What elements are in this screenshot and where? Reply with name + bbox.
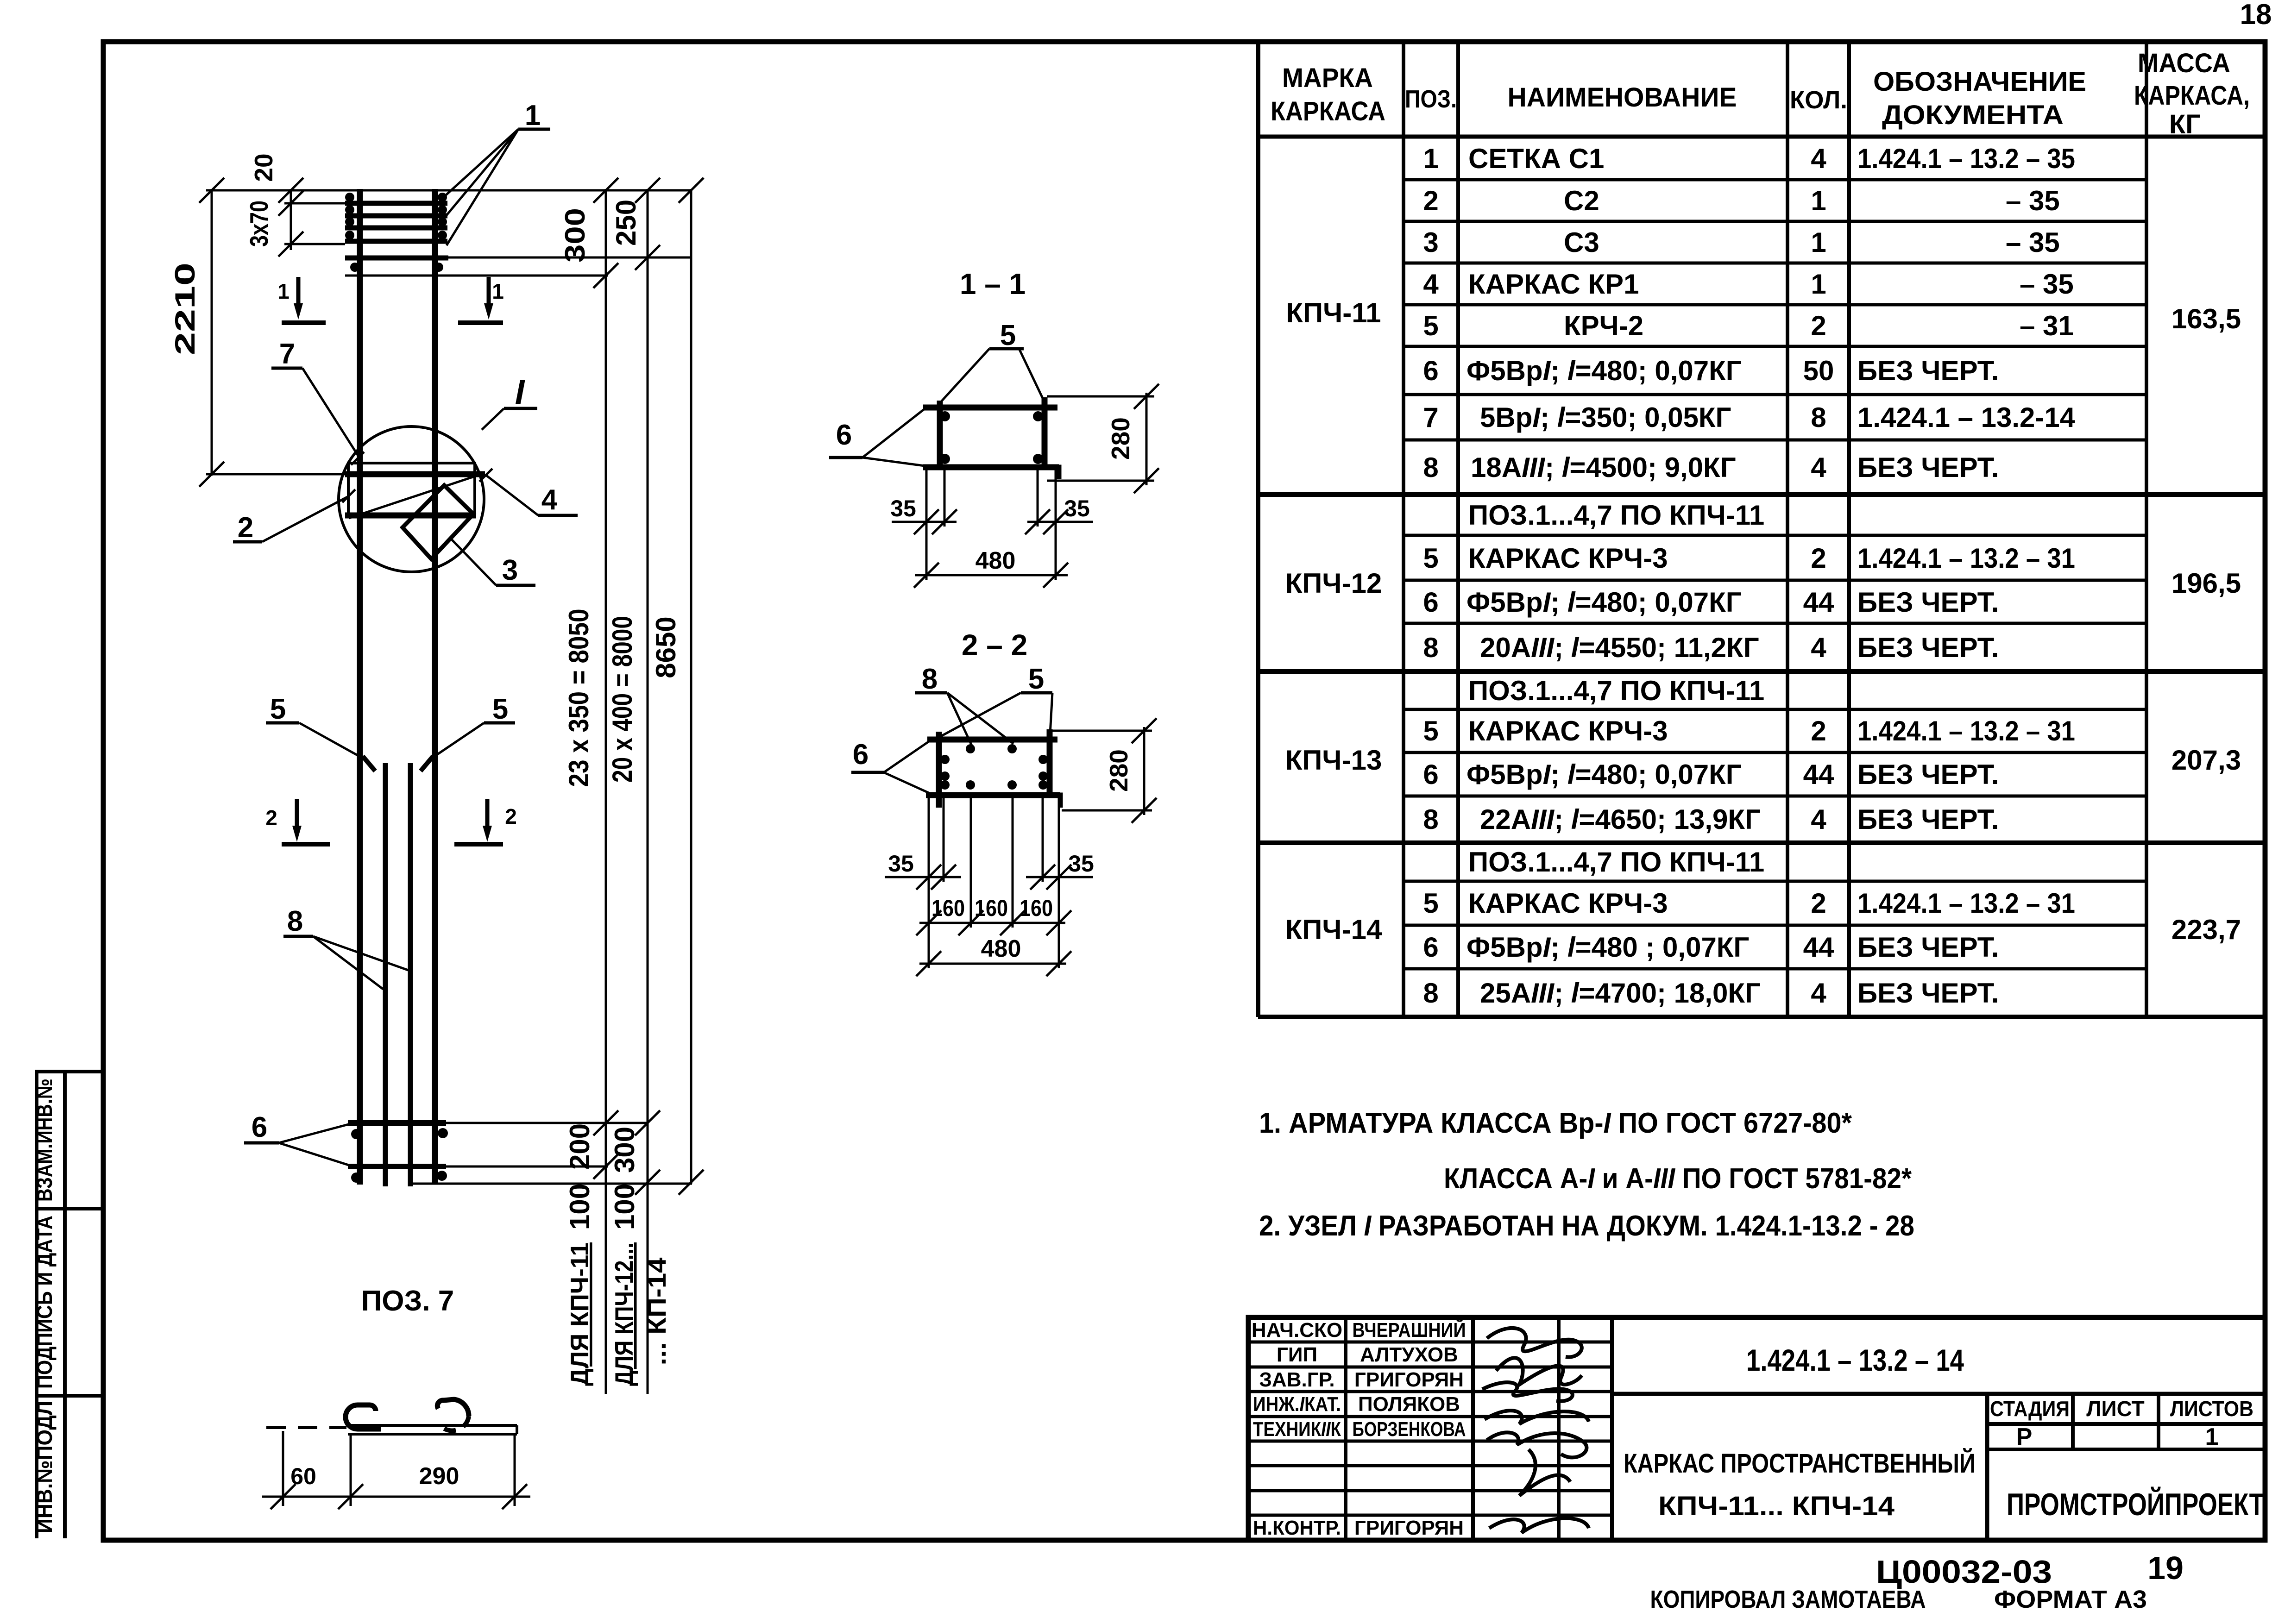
svg-text:Н.КОНТР.: Н.КОНТР. — [1253, 1517, 1341, 1539]
extension wire4 — [284, 243, 345, 245]
mesh C1 cross wire 3 — [345, 226, 447, 231]
svg-text:20АIII; l=4550; 11,2КГ: 20АIII; l=4550; 11,2КГ — [1480, 632, 1759, 663]
svg-text:НАИМЕНОВАНИЕ: НАИМЕНОВАНИЕ — [1508, 82, 1737, 113]
dim line 20x400 (x=1398) — [647, 189, 649, 1394]
svg-text:1.424.1 – 13.2-14: 1.424.1 – 13.2-14 — [1857, 402, 2076, 433]
2-2 bar dots — [966, 744, 975, 753]
svg-text:БЕЗ ЧЕРТ.: БЕЗ ЧЕРТ. — [1857, 978, 1999, 1009]
dim line 23x350 (x=1308) — [605, 189, 607, 1394]
top extension line — [206, 189, 691, 192]
svg-text:1.424.1 – 13.2 – 14: 1.424.1 – 13.2 – 14 — [1746, 1343, 1964, 1377]
svg-text:207,3: 207,3 — [2171, 745, 2241, 776]
dim 2210 line — [211, 189, 213, 476]
svg-text:20 x 400 = 8000: 20 x 400 = 8000 — [607, 616, 638, 783]
svg-text:КАРКАСА,: КАРКАСА, — [2134, 81, 2250, 111]
node inner diagonal — [349, 473, 484, 518]
1-1 stirrup corner hook — [1048, 467, 1059, 479]
svg-text:– 35: – 35 — [2006, 185, 2060, 216]
svg-text:8: 8 — [1811, 402, 1826, 433]
svg-text:КПЧ-14: КПЧ-14 — [1285, 914, 1382, 945]
svg-text:2: 2 — [1811, 310, 1826, 341]
svg-text:КАРКАС КРЧ-3: КАРКАС КРЧ-3 — [1468, 543, 1668, 574]
svg-text:2 – 2: 2 – 2 — [962, 628, 1027, 662]
svg-text:5: 5 — [1423, 310, 1438, 341]
svg-text:ЗАВ.ГР.: ЗАВ.ГР. — [1259, 1368, 1334, 1391]
svg-text:1: 1 — [277, 279, 290, 303]
svg-text:СТАДИЯ: СТАДИЯ — [1990, 1397, 2070, 1421]
svg-text:– 35: – 35 — [2020, 269, 2074, 300]
node rect top edge (mesh C2) — [347, 462, 476, 464]
svg-text:БЕЗ ЧЕРТ.: БЕЗ ЧЕРТ. — [1857, 452, 1999, 483]
2-2 stirrup right leg — [1047, 729, 1053, 795]
svg-text:2. УЗЕЛ I РАЗРАБОТАН НА ДОКУМ.: 2. УЗЕЛ I РАЗРАБОТАН НА ДОКУМ. 1.424.1-1… — [1259, 1210, 1914, 1242]
bar 5 splice mark right — [421, 756, 433, 771]
svg-text:С2: С2 — [1564, 185, 1599, 216]
svg-text:КПЧ-12: КПЧ-12 — [1285, 568, 1382, 599]
svg-text:23 x 350 = 8050: 23 x 350 = 8050 — [563, 609, 594, 787]
svg-text:5: 5 — [1423, 888, 1438, 919]
svg-text:18АIII; l=4500; 9,0КГ: 18АIII; l=4500; 9,0КГ — [1471, 452, 1736, 483]
svg-text:200: 200 — [564, 1123, 595, 1170]
svg-text:БЕЗ ЧЕРТ.: БЕЗ ЧЕРТ. — [1857, 759, 1999, 790]
svg-text:ВЧЕРАШНИЙ: ВЧЕРАШНИЙ — [1353, 1318, 1466, 1342]
mesh C1 cross wire 2 — [345, 213, 447, 219]
svg-text:5: 5 — [270, 693, 286, 725]
svg-text:Ц00032-03: Ц00032-03 — [1876, 1554, 2052, 1590]
svg-text:Ф5ВрI; l=480 ; 0,07КГ: Ф5ВрI; l=480 ; 0,07КГ — [1466, 932, 1749, 963]
svg-text:5: 5 — [1423, 543, 1438, 574]
svg-text:2: 2 — [238, 512, 253, 544]
svg-text:44: 44 — [1803, 587, 1834, 618]
svg-text:ИНЖ.IКАТ.: ИНЖ.IКАТ. — [1253, 1393, 1341, 1416]
node thick bottom bar — [345, 513, 476, 519]
svg-text:ОБОЗНАЧЕНИЕ: ОБОЗНАЧЕНИЕ — [1873, 67, 2086, 97]
svg-text:250: 250 — [611, 200, 642, 246]
svg-text:8: 8 — [1423, 452, 1438, 483]
hook detail dashed continuation — [266, 1426, 346, 1429]
svg-text:196,5: 196,5 — [2171, 568, 2241, 599]
svg-text:5ВрI; l=350; 0,05КГ: 5ВрI; l=350; 0,05КГ — [1480, 402, 1731, 433]
svg-text:2210: 2210 — [170, 263, 201, 355]
1-1 dim 480 — [915, 574, 1068, 577]
svg-text:КПЧ-11... КПЧ-14: КПЧ-11... КПЧ-14 — [1658, 1491, 1894, 1521]
1-1 stirrup top bar — [923, 405, 1057, 411]
svg-text:МАССА: МАССА — [2138, 48, 2230, 78]
extension mesh bottom level — [345, 275, 608, 277]
svg-text:4: 4 — [1811, 452, 1826, 483]
svg-text:19: 19 — [2147, 1550, 2184, 1586]
svg-text:НАЧ.СКО: НАЧ.СКО — [1252, 1319, 1342, 1342]
svg-text:1 – 1: 1 – 1 — [960, 267, 1026, 301]
svg-text:1.424.1 – 13.2 – 35: 1.424.1 – 13.2 – 35 — [1857, 143, 2075, 174]
svg-text:ПОЗ.: ПОЗ. — [1405, 85, 1457, 113]
2-2 dim 280 — [1052, 730, 1152, 732]
svg-text:8: 8 — [1423, 978, 1438, 1009]
hook detail extension lines — [282, 1431, 284, 1506]
svg-text:1.424.1 – 13.2 – 31: 1.424.1 – 13.2 – 31 — [1857, 715, 2075, 746]
svg-text:280: 280 — [1106, 417, 1135, 460]
svg-text:25АIII; l=4700; 18,0КГ: 25АIII; l=4700; 18,0КГ — [1480, 978, 1761, 1009]
lower mesh dots below bar5 — [350, 263, 359, 272]
extension bar5 level — [448, 257, 691, 259]
svg-text:БЕЗ ЧЕРТ.: БЕЗ ЧЕРТ. — [1857, 804, 1999, 835]
svg-text:ФОРМАТ А3: ФОРМАТ А3 — [1994, 1586, 2147, 1613]
mesh C1 cross wire 4 — [345, 239, 447, 244]
1-1 dim 280 — [1047, 395, 1154, 398]
svg-text:20: 20 — [249, 153, 278, 182]
svg-text:6: 6 — [836, 419, 852, 451]
svg-text:163,5: 163,5 — [2171, 303, 2241, 334]
svg-text:1. АРМАТУРА КЛАССА Вр-I ПО ГО: 1. АРМАТУРА КЛАССА Вр-I ПО ГОСТ 6727-80* — [1259, 1107, 1852, 1139]
dim line 8650 (x=1492) — [690, 189, 692, 1184]
2-2 dims 160 — [919, 922, 1065, 924]
2-2 extension verticals — [928, 798, 930, 968]
svg-text:КАРКАС КРЧ-3: КАРКАС КРЧ-3 — [1468, 888, 1668, 919]
svg-text:5: 5 — [1028, 663, 1044, 695]
longitudinal bar 8 left — [383, 763, 388, 1186]
svg-text:6: 6 — [1423, 759, 1438, 790]
cage leg left (bar 5/8 line) — [357, 189, 363, 1185]
svg-text:8: 8 — [1423, 632, 1438, 663]
svg-text:1: 1 — [1811, 227, 1826, 258]
svg-text:35: 35 — [890, 495, 916, 521]
svg-text:6: 6 — [1423, 355, 1438, 386]
svg-text:ПРОМСТРОЙПРОЕКТ: ПРОМСТРОЙПРОЕКТ — [2007, 1486, 2264, 1522]
2-2 dim 480 — [919, 963, 1066, 965]
1-1 corner bar dots — [940, 411, 950, 421]
bottom stirrup dots — [351, 1129, 361, 1139]
svg-text:КПЧ-11: КПЧ-11 — [1286, 297, 1381, 328]
svg-text:290: 290 — [419, 1463, 459, 1490]
svg-text:ГРИГОРЯН: ГРИГОРЯН — [1354, 1517, 1464, 1539]
svg-text:7: 7 — [1423, 402, 1438, 433]
svg-text:4: 4 — [1811, 978, 1826, 1009]
svg-text:Р: Р — [2016, 1423, 2033, 1450]
2-2 stirrup left leg — [936, 732, 942, 808]
bottom stirrup bar A — [348, 1120, 446, 1126]
svg-text:КПЧ-13: КПЧ-13 — [1285, 745, 1382, 776]
svg-text:ПОЗ.1...4,7 ПО КПЧ-11: ПОЗ.1...4,7 ПО КПЧ-11 — [1468, 846, 1764, 878]
svg-text:КОПИРОВАЛ ЗАМОТАЕВА: КОПИРОВАЛ ЗАМОТАЕВА — [1650, 1586, 1926, 1613]
svg-text:КАРКАС КР1: КАРКАС КР1 — [1468, 269, 1639, 300]
svg-text:44: 44 — [1803, 932, 1834, 963]
1-1 dim 35 right — [1027, 521, 1093, 523]
svg-text:ДОКУМЕНТА: ДОКУМЕНТА — [1882, 100, 2064, 130]
svg-text:5: 5 — [1423, 715, 1438, 746]
1-1 stirrup right leg — [1042, 397, 1048, 467]
svg-text:280: 280 — [1104, 749, 1133, 792]
svg-text:5: 5 — [1000, 320, 1016, 351]
svg-text:Ф5ВрI; l=480; 0,07КГ: Ф5ВрI; l=480; 0,07КГ — [1466, 759, 1742, 790]
mesh wire end dots left — [345, 193, 354, 202]
svg-text:160: 160 — [1020, 895, 1053, 921]
svg-text:4: 4 — [1811, 143, 1826, 174]
svg-text:100: 100 — [564, 1184, 595, 1230]
mesh wire end dots right — [438, 193, 447, 202]
svg-text:2: 2 — [1811, 888, 1826, 919]
specification table grid — [1258, 42, 2265, 1017]
svg-text:100: 100 — [609, 1184, 640, 1230]
hook detail bar outline — [348, 1424, 517, 1427]
svg-text:2: 2 — [1811, 715, 1826, 746]
svg-text:160: 160 — [932, 895, 965, 921]
svg-text:БЕЗ ЧЕРТ.: БЕЗ ЧЕРТ. — [1857, 632, 1999, 663]
svg-text:50: 50 — [1803, 355, 1834, 386]
node I circle — [339, 426, 484, 572]
svg-text:КАРКАСА: КАРКАСА — [1271, 96, 1385, 126]
svg-text:БЕЗ ЧЕРТ.: БЕЗ ЧЕРТ. — [1857, 932, 1999, 963]
svg-text:1: 1 — [1811, 269, 1826, 300]
svg-text:6: 6 — [1423, 587, 1438, 618]
svg-text:ЛИСТ: ЛИСТ — [2086, 1397, 2145, 1421]
svg-text:ПОДПИСЬ И ДАТА: ПОДПИСЬ И ДАТА — [32, 1216, 57, 1389]
svg-text:1: 1 — [492, 279, 504, 303]
2-2 dim 35 left — [885, 876, 961, 878]
svg-text:44: 44 — [1803, 759, 1834, 790]
hook right (dashed 180 deg) — [437, 1399, 469, 1416]
2-2 stirrup bottom bar — [926, 792, 1060, 798]
svg-text:3: 3 — [1423, 227, 1438, 258]
svg-text:С3: С3 — [1564, 227, 1599, 258]
svg-text:ИНВ.№ПОДЛ: ИНВ.№ПОДЛ — [32, 1401, 57, 1533]
bar 5 splice mark left — [363, 756, 375, 771]
svg-text:4: 4 — [1811, 632, 1826, 663]
svg-text:35: 35 — [888, 851, 914, 877]
svg-text:ВЗАМ.ИНВ.№: ВЗАМ.ИНВ.№ — [32, 1078, 57, 1202]
svg-text:4: 4 — [1811, 804, 1826, 835]
svg-text:18: 18 — [2240, 0, 2272, 31]
svg-text:ЛИСТОВ: ЛИСТОВ — [2170, 1397, 2253, 1421]
dim 20 / 3x70 line — [290, 189, 292, 250]
svg-text:2: 2 — [1423, 185, 1438, 216]
node thick top bar — [345, 471, 485, 477]
svg-text:ПОЗ. 7: ПОЗ. 7 — [361, 1285, 454, 1317]
extension stirrup A — [446, 1122, 648, 1124]
svg-text:35: 35 — [1068, 851, 1094, 877]
svg-text:8650: 8650 — [650, 616, 681, 678]
svg-text:ГИП: ГИП — [1277, 1343, 1317, 1366]
2-2 dim 35 right — [1026, 876, 1093, 878]
svg-text:ПОЛЯКОВ: ПОЛЯКОВ — [1358, 1393, 1460, 1416]
svg-text:1: 1 — [525, 100, 541, 132]
longitudinal bar 8 right — [408, 763, 413, 1186]
svg-text:Ф5ВрI; l=480; 0,07КГ: Ф5ВрI; l=480; 0,07КГ — [1466, 355, 1742, 386]
svg-text:МАРКА: МАРКА — [1282, 63, 1373, 93]
svg-text:223,7: 223,7 — [2171, 914, 2241, 945]
svg-text:5: 5 — [492, 693, 508, 725]
svg-text:1: 1 — [2205, 1423, 2219, 1450]
svg-text:300: 300 — [609, 1127, 640, 1173]
svg-text:I: I — [515, 373, 525, 411]
svg-text:... КП-14: ... КП-14 — [642, 1257, 671, 1365]
svg-text:БЕЗ ЧЕРТ.: БЕЗ ЧЕРТ. — [1857, 355, 1999, 386]
2-2 stirrup top bar — [927, 737, 1057, 743]
node rect right edge — [473, 463, 476, 517]
1-1 dim 35 left — [892, 521, 957, 523]
svg-text:1.424.1 – 13.2 – 31: 1.424.1 – 13.2 – 31 — [1857, 888, 2075, 919]
extension at node bar level — [206, 473, 347, 476]
svg-text:КАРКАС ПРОСТРАНСТВЕННЫЙ: КАРКАС ПРОСТРАНСТВЕННЫЙ — [1624, 1448, 1976, 1479]
bottom stirrup bar B — [348, 1164, 446, 1169]
svg-text:АЛТУХОВ: АЛТУХОВ — [1360, 1343, 1458, 1366]
svg-text:ПОЗ.1...4,7 ПО КПЧ-11: ПОЗ.1...4,7 ПО КПЧ-11 — [1468, 500, 1764, 531]
svg-text:6: 6 — [1423, 932, 1438, 963]
svg-text:480: 480 — [976, 547, 1016, 574]
extension wire1 — [284, 202, 345, 205]
1-1 extension verticals — [925, 470, 928, 580]
svg-text:СЕТКА С1: СЕТКА С1 — [1468, 143, 1604, 174]
svg-text:– 35: – 35 — [2006, 227, 2060, 258]
extension cage end — [411, 1183, 692, 1185]
title block outer frame — [1248, 1317, 2265, 1540]
extension stirrup B — [446, 1166, 608, 1168]
svg-text:КГ: КГ — [2169, 109, 2201, 139]
svg-text:1.424.1 – 13.2 – 31: 1.424.1 – 13.2 – 31 — [1857, 543, 2075, 574]
svg-text:6: 6 — [252, 1111, 267, 1143]
svg-text:БЕЗ ЧЕРТ.: БЕЗ ЧЕРТ. — [1857, 587, 1999, 618]
svg-text:ТЕХНИКIIК: ТЕХНИКIIК — [1253, 1418, 1341, 1441]
node rect left edge — [347, 463, 350, 517]
svg-text:35: 35 — [1064, 495, 1090, 521]
svg-text:3x70: 3x70 — [245, 201, 273, 247]
side stamp boxes — [35, 1072, 101, 1538]
2-2 stirrup corner hook — [1051, 795, 1060, 808]
svg-text:6: 6 — [853, 739, 869, 771]
hook detail dim line — [262, 1496, 530, 1498]
1-1 stirrup left leg — [937, 401, 943, 470]
svg-text:60: 60 — [290, 1463, 316, 1489]
svg-text:– 31: – 31 — [2020, 310, 2074, 341]
svg-text:22АIII; l=4650; 13,9КГ: 22АIII; l=4650; 13,9КГ — [1480, 804, 1761, 835]
svg-text:2: 2 — [505, 804, 517, 828]
mesh C1 bottom wire (pos 5 level) — [345, 256, 448, 261]
svg-text:КРЧ-2: КРЧ-2 — [1564, 310, 1643, 341]
svg-text:2: 2 — [1811, 543, 1826, 574]
svg-text:БОРЗЕНКОВА: БОРЗЕНКОВА — [1353, 1418, 1466, 1441]
svg-text:480: 480 — [981, 935, 1021, 962]
svg-text:4: 4 — [541, 484, 558, 516]
svg-text:7: 7 — [279, 338, 295, 370]
mesh C1 cross wire 1 — [345, 201, 447, 206]
svg-text:1: 1 — [1423, 143, 1438, 174]
svg-text:ГРИГОРЯН: ГРИГОРЯН — [1354, 1368, 1464, 1391]
title block grid — [1248, 1317, 2265, 1540]
node diamond (mesh C3) — [403, 485, 473, 559]
svg-text:КЛАССА А-I и А-III ПО ГОСТ 578: КЛАССА А-I и А-III ПО ГОСТ 5781-82* — [1444, 1163, 1912, 1195]
1-1 stirrup bottom bar — [923, 464, 1059, 470]
svg-text:160: 160 — [975, 895, 1008, 921]
signatures squiggles — [1482, 1328, 1589, 1533]
svg-text:8: 8 — [1423, 804, 1438, 835]
svg-text:КАРКАС КРЧ-3: КАРКАС КРЧ-3 — [1468, 715, 1668, 746]
svg-text:ДЛЯ КПЧ-11: ДЛЯ КПЧ-11 — [565, 1242, 594, 1386]
cage leg right — [432, 189, 438, 1185]
svg-text:8: 8 — [287, 905, 303, 937]
hook left (180 deg) — [346, 1405, 381, 1429]
svg-text:ДЛЯ КПЧ-12...: ДЛЯ КПЧ-12... — [610, 1242, 638, 1386]
svg-text:8: 8 — [922, 663, 938, 695]
svg-text:300: 300 — [560, 208, 591, 263]
svg-text:4: 4 — [1423, 269, 1439, 300]
svg-text:1: 1 — [1811, 185, 1826, 216]
svg-text:2: 2 — [265, 806, 277, 830]
svg-text:КОЛ.: КОЛ. — [1790, 86, 1847, 114]
svg-text:3: 3 — [502, 554, 518, 586]
svg-text:ПОЗ.1...4,7 ПО КПЧ-11: ПОЗ.1...4,7 ПО КПЧ-11 — [1468, 675, 1764, 706]
svg-text:Ф5ВрI; l=480; 0,07КГ: Ф5ВрI; l=480; 0,07КГ — [1466, 587, 1742, 618]
